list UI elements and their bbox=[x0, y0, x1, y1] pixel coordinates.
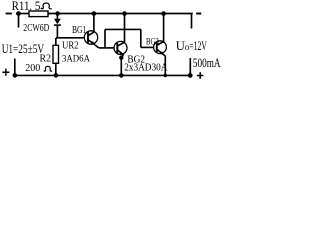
zener diode cathode bar bbox=[54, 24, 61, 26]
wire BG1 emitter to BG2 base bbox=[99, 47, 114, 49]
svg-text:=12V: =12V bbox=[189, 39, 207, 53]
zener diode 2CW6D anode lead bbox=[56, 14, 58, 20]
transistor BG3 emitter bbox=[157, 49, 166, 56]
svg-text:U1=25±5V: U1=25±5V bbox=[2, 41, 45, 56]
node dot R2 bottom bbox=[54, 73, 59, 78]
base bus right vertical bbox=[140, 29, 142, 47]
transistor BG2 circle bbox=[114, 41, 127, 54]
base bus left vertical bbox=[104, 29, 106, 48]
svg-text:2x3AD30A: 2x3AD30A bbox=[124, 63, 168, 74]
svg-text:2CW6D: 2CW6D bbox=[23, 22, 49, 34]
svg-text:U: U bbox=[176, 39, 185, 53]
BG3 emitter arrow bbox=[160, 51, 164, 55]
svg-text:3AD6A: 3AD6A bbox=[62, 54, 90, 65]
transistor BG1 emitter bbox=[88, 40, 99, 48]
wire top rail left bbox=[16, 13, 29, 15]
node dot BG3 emitter rail bbox=[164, 74, 168, 78]
wire BG3 emitter to bottom rail bbox=[164, 56, 166, 76]
node dot zener top bbox=[55, 11, 60, 16]
transistor BG2 collector bbox=[117, 42, 124, 46]
wire input bottom stub bbox=[14, 59, 16, 76]
wire BG2 collector to rail bbox=[124, 14, 126, 43]
node dot BG2 collector bbox=[122, 11, 127, 16]
wire node to BG1 base bbox=[56, 37, 84, 39]
ohm symbol of R2 bbox=[44, 66, 52, 71]
input terminal plus bbox=[2, 69, 9, 76]
transistor BG3 collector bbox=[157, 42, 164, 46]
wire output top corner stub bbox=[191, 14, 193, 29]
transistor BG3 circle bbox=[154, 41, 167, 54]
wire zener to node bbox=[56, 25, 57, 38]
transistor BG2 emitter bbox=[117, 50, 123, 57]
svg-text:UR2: UR2 bbox=[62, 40, 79, 51]
svg-text:500mA: 500mA bbox=[193, 56, 221, 70]
svg-text:BG3: BG3 bbox=[146, 37, 159, 48]
output terminal minus bbox=[196, 13, 201, 15]
node dot BG1 collector bbox=[92, 11, 97, 16]
transistor BG2 base bar bbox=[116, 43, 118, 53]
svg-text:R11. 5: R11. 5 bbox=[12, 0, 41, 13]
node dot BG2 emitter rail bbox=[119, 73, 124, 78]
wire BG3 collector to rail bbox=[163, 14, 165, 42]
node dot input top bbox=[16, 11, 21, 16]
transistor BG1 collector bbox=[88, 32, 94, 36]
ohm symbol of R1 bbox=[41, 3, 52, 9]
zener diode triangle bbox=[54, 19, 61, 25]
transistor BG3 base bar bbox=[156, 42, 158, 52]
svg-text:200: 200 bbox=[25, 62, 40, 74]
wire BG2 emitter to bottom rail bbox=[120, 56, 122, 75]
svg-text:BG1: BG1 bbox=[72, 25, 86, 36]
wire R2 to bottom rail bbox=[55, 63, 57, 75]
wire output bottom stub bbox=[189, 58, 191, 75]
resistor R1 bbox=[29, 11, 48, 17]
wire BG1 collector to rail bbox=[93, 14, 95, 33]
wire input top stub bbox=[18, 14, 20, 28]
wire node down to R2 bbox=[55, 38, 57, 45]
output terminal plus bbox=[197, 72, 204, 79]
wire bus to BG3 base bbox=[141, 46, 154, 48]
transistor BG1 circle bbox=[84, 31, 97, 44]
BG2 emitter arrow bbox=[120, 52, 124, 55]
node dot BG3 collector bbox=[161, 11, 166, 16]
input terminal minus bbox=[6, 13, 12, 15]
resistor R2 bbox=[53, 45, 59, 63]
wire top rail middle bbox=[48, 13, 193, 15]
bottom rail wire bbox=[13, 74, 190, 76]
node dot output bottom bbox=[188, 73, 193, 78]
transistor BG1 base bar bbox=[87, 32, 89, 43]
node dot input bottom bbox=[13, 73, 18, 78]
node dot BG2 emitter bbox=[119, 55, 123, 59]
BG1 emitter arrow bbox=[91, 41, 95, 45]
base bus top horizontal bbox=[105, 28, 141, 30]
